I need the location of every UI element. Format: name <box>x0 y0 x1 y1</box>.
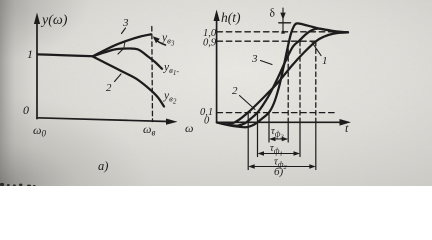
svg-text:0,9: 0,9 <box>203 38 217 49</box>
svg-text:1: 1 <box>27 47 33 61</box>
dashed level line 0.9 <box>217 40 316 42</box>
boundary line tau1 left <box>257 113 259 157</box>
tau_f1 arrow <box>260 153 298 155</box>
curve 1 left <box>93 48 162 68</box>
bottom edge specks <box>0 183 36 186</box>
flat response line at level 1 <box>38 54 94 56</box>
top-left corner shading <box>0 0 1 1</box>
svg-text:ω: ω <box>185 121 193 135</box>
svg-text:а): а) <box>98 159 108 173</box>
svg-text:0: 0 <box>23 103 29 117</box>
left x-axis arrowhead <box>166 119 178 125</box>
svg-text:3: 3 <box>251 53 258 65</box>
boundary line tau1 right <box>299 122 301 156</box>
tau_f2 arrow <box>251 166 314 168</box>
right y-axis <box>216 14 218 123</box>
left y-axis arrowhead <box>34 13 40 25</box>
boundary line tau3 left <box>268 113 270 142</box>
curve 3 left <box>93 34 151 56</box>
step response curve 3 (fast, overshoot) <box>217 23 348 127</box>
dashed vertical at 0.9 crossing of curve 3 <box>287 41 289 122</box>
left edge scanner shadow <box>0 0 34 186</box>
right t-axis arrowhead <box>340 119 352 126</box>
svg-text:1: 1 <box>322 55 328 67</box>
svg-text:б): б) <box>274 166 284 178</box>
left y-axis <box>36 17 38 119</box>
bottom-left corner shadow <box>0 96 150 186</box>
dashed vertical at 0.9 crossing of curve 2 <box>315 41 317 122</box>
svg-text:0: 0 <box>204 116 210 127</box>
boundary line tau2 left <box>247 113 249 170</box>
step response curve 2 (slow) <box>217 32 348 124</box>
svg-text:y(ω): y(ω) <box>40 13 68 28</box>
step response curve 1 (medium) <box>217 29 347 126</box>
overshoot peak tick <box>279 22 291 24</box>
curve 2 left <box>93 57 164 107</box>
left x-axis <box>37 118 172 122</box>
overshoot arrow down <box>282 8 284 31</box>
dashed level line 1.0 <box>217 31 341 33</box>
svg-text:h(t): h(t) <box>221 10 241 25</box>
right t-axis <box>217 121 345 123</box>
dashed vertical at omega_v <box>151 27 154 122</box>
right y-axis arrowhead <box>214 10 220 22</box>
svg-text:2: 2 <box>232 85 238 97</box>
dashed level line 0.1 <box>217 112 337 114</box>
paper grain noise <box>0 0 432 186</box>
boundary line tau2 right <box>315 122 317 169</box>
svg-text:3: 3 <box>122 17 129 29</box>
boundary line tau3 right <box>287 122 289 142</box>
paper background <box>0 0 432 186</box>
small up arrowhead at 1.0 line <box>281 29 285 33</box>
dashed vertical at 0.9 crossing of curve 1 <box>299 41 301 122</box>
tau_f3 arrow <box>272 138 286 140</box>
svg-text:2: 2 <box>106 82 112 94</box>
